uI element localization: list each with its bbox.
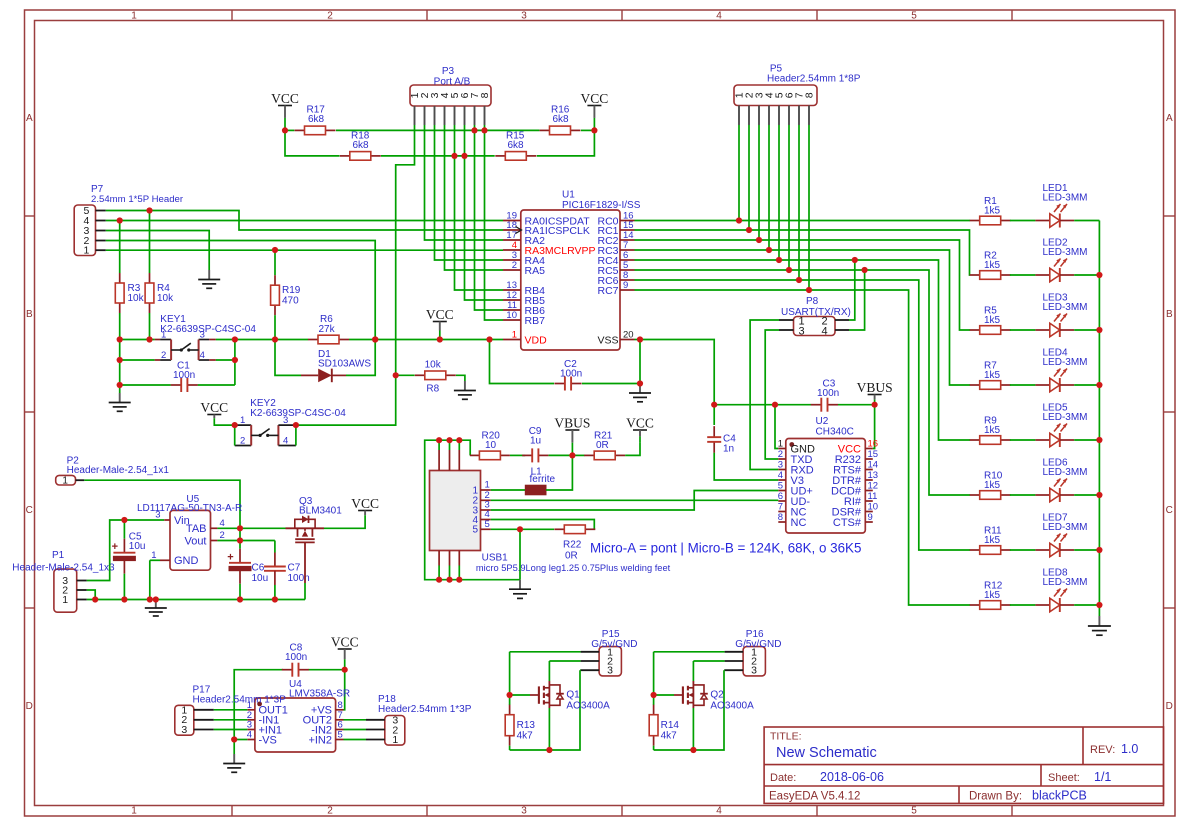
wire D1 right to VDD [346, 340, 375, 376]
svg-text:8: 8 [778, 512, 783, 523]
wire P7.2 to VDD line [106, 241, 375, 340]
svg-text:4k7: 4k7 [517, 731, 534, 742]
node bus/LED4 [1096, 382, 1102, 388]
svg-text:D: D [26, 701, 33, 712]
node bus/LED6 [1096, 492, 1102, 498]
connector P3 [409, 66, 491, 106]
wire R16-VCC [581, 129, 594, 131]
wire P5.7 to RC6 [798, 125, 800, 280]
wire P15.2 to drain [549, 660, 580, 662]
svg-text:4: 4 [778, 470, 783, 481]
svg-text:6k8: 6k8 [508, 140, 525, 151]
wire P1.2 to gnd rail [87, 590, 95, 600]
node USB shell top [446, 437, 452, 443]
wire USB pin5 [491, 528, 554, 530]
svg-text:VCC: VCC [581, 91, 609, 106]
wire R14 to rail [653, 746, 655, 750]
ic U2 CH340C [778, 416, 878, 533]
wire R17 line [285, 129, 294, 131]
ground (P1 rail) [145, 600, 167, 617]
svg-text:1: 1 [131, 10, 137, 21]
wire P3.1 to KEY2/R8 net (MCLR) [296, 125, 415, 425]
capacitor C5 [112, 520, 146, 600]
wire Q2 source to rail [692, 708, 694, 750]
svg-text:100n: 100n [285, 652, 307, 663]
wire P3.5 to RB4 [455, 125, 504, 290]
node C8/VCC [342, 667, 348, 673]
wire R10 to LED6 [1010, 494, 1036, 496]
wire R20-C9 [510, 454, 525, 456]
svg-text:1u: 1u [530, 436, 541, 447]
svg-text:1: 1 [151, 550, 156, 561]
wire KEY1 right bus [234, 340, 236, 386]
svg-text:2.54mm 1*5P Header: 2.54mm 1*5P Header [91, 194, 184, 205]
node C7/rail [272, 596, 278, 602]
wire C1 line left [120, 384, 171, 386]
svg-text:10k: 10k [128, 293, 145, 304]
wire P3.6 to RB5 [465, 125, 504, 300]
svg-text:6k8: 6k8 [553, 114, 570, 125]
node KEY1.1/R4 [146, 336, 152, 342]
svg-text:3: 3 [521, 10, 527, 21]
resistor R11 [970, 526, 1011, 555]
resistor R1 [970, 196, 1011, 225]
connector P17 [175, 685, 286, 737]
svg-text:3: 3 [798, 326, 804, 338]
svg-text:1k5: 1k5 [984, 535, 1001, 546]
power VBUS (USB) [554, 416, 590, 456]
svg-text:LMV358A-SR: LMV358A-SR [289, 689, 350, 700]
svg-text:1: 1 [392, 734, 398, 746]
resistor R6 [308, 314, 349, 344]
svg-text:10k: 10k [425, 359, 442, 370]
svg-text:1/1: 1/1 [1094, 770, 1111, 784]
connector P1 [12, 550, 115, 612]
svg-text:R19: R19 [282, 285, 301, 296]
node bus/LED5 [1096, 437, 1102, 443]
wire LED7 to bus [1074, 549, 1099, 551]
wire RC0 to R1 [635, 220, 971, 222]
svg-text:9: 9 [868, 512, 873, 523]
svg-text:3: 3 [181, 724, 187, 736]
led LED7 [1035, 513, 1087, 558]
svg-text:1k5: 1k5 [984, 425, 1001, 436]
svg-text:LED-3MM: LED-3MM [1043, 193, 1088, 204]
svg-text:Date:: Date: [770, 772, 796, 784]
wire R1 to LED1 [1010, 220, 1036, 222]
svg-text:-VS: -VS [259, 734, 277, 746]
capacitor C9 [522, 426, 548, 462]
P3 pin 3 stub [434, 106, 436, 125]
node P5.1/RC0 [736, 217, 742, 223]
connector USB1 [430, 440, 671, 580]
svg-text:3: 3 [607, 665, 613, 677]
P7 pin 1 stub [96, 249, 106, 251]
node C1 left [117, 382, 123, 388]
wire Q3 gate to rail [304, 583, 306, 600]
svg-text:0R: 0R [565, 551, 578, 562]
wire KEY1 pin4 [216, 359, 235, 361]
svg-text:+IN2: +IN2 [308, 734, 332, 746]
wire R5 to LED3 [1010, 329, 1036, 331]
wire RC2 to R5 [635, 240, 971, 330]
svg-text:C: C [1166, 505, 1173, 516]
svg-text:6k8: 6k8 [308, 114, 325, 125]
resistor R15 [495, 131, 536, 161]
svg-text:Port A/B: Port A/B [434, 77, 471, 88]
svg-text:100n: 100n [817, 388, 839, 399]
wire R3 bottom to KEY1 [119, 313, 121, 340]
svg-text:1k5: 1k5 [984, 260, 1001, 271]
wire VSS to gnd and C4 [635, 339, 641, 341]
svg-text:P8: P8 [806, 296, 819, 307]
svg-text:5: 5 [778, 481, 783, 492]
node P5.4/RC3 [766, 247, 772, 253]
wire LED2 to bus [1074, 274, 1099, 276]
wire RC3 to R7 [635, 250, 971, 385]
wire KEY1 left bus to C1/gnd [119, 340, 121, 394]
resistor R18 [340, 131, 381, 161]
P5 pin 2 stub [748, 106, 750, 126]
connector P15 [581, 629, 638, 677]
svg-text:LED-3MM: LED-3MM [1043, 302, 1088, 313]
wire P7.5 to RA1 [106, 211, 503, 231]
wire R18-R15 line [381, 155, 495, 157]
svg-text:4: 4 [716, 806, 722, 817]
node P5.6/RC5 [786, 267, 792, 273]
node RA3/R19 [272, 247, 278, 253]
wire RC5 to R10 [635, 270, 971, 495]
svg-text:+: + [227, 551, 233, 563]
svg-text:LED-3MM: LED-3MM [1043, 577, 1088, 588]
transistor Q2 AO3400A [654, 681, 754, 712]
wire -VS to gnd [234, 739, 247, 741]
wire R15 to VCC riser [537, 130, 595, 156]
svg-text:B: B [1166, 309, 1173, 320]
svg-text:GND: GND [174, 555, 199, 567]
svg-text:10: 10 [868, 502, 879, 513]
wire L1 to VBUS [546, 455, 572, 490]
wire RC7 to R12 [635, 290, 971, 605]
wire U2 VCC pin to VBUS [873, 405, 875, 449]
connector P7 [74, 184, 184, 257]
node VCC/R16 [591, 127, 597, 133]
svg-text:1: 1 [131, 806, 137, 817]
connector P16 [725, 629, 782, 677]
svg-text:AO3400A: AO3400A [710, 701, 754, 712]
node GND/C4 [711, 402, 717, 408]
node P5.8/RC7 [806, 287, 812, 293]
connector P5 [733, 64, 860, 106]
svg-text:4: 4 [200, 350, 205, 361]
wire R9 to LED5 [1010, 439, 1036, 441]
svg-text:1: 1 [62, 476, 68, 487]
led LED2 [1035, 238, 1087, 283]
connector P2 [56, 456, 170, 487]
svg-text:1k5: 1k5 [984, 480, 1001, 491]
svg-text:13: 13 [868, 470, 879, 481]
wire KEY2 pins3-4 [295, 425, 297, 445]
svg-text:Micro-A = pont | Micro-B = 124: Micro-A = pont | Micro-B = 124K, 68K, o … [590, 541, 861, 556]
wire P8.3 to U2 TXD [765, 330, 779, 459]
svg-text:VBUS: VBUS [857, 380, 893, 395]
svg-text:Header-Male-2.54_1x3: Header-Male-2.54_1x3 [12, 563, 115, 574]
node C5/rail [121, 596, 127, 602]
wire P5.4 to RC3 [768, 125, 770, 250]
resistor R17 [295, 105, 336, 135]
svg-text:4: 4 [716, 10, 722, 21]
wire RC6 to R11 [635, 280, 971, 550]
led LED6 [1035, 458, 1087, 503]
svg-text:1: 1 [62, 594, 68, 606]
resistor R13 [505, 695, 535, 746]
node Q2 gate [651, 692, 657, 698]
svg-text:NC: NC [791, 517, 807, 529]
inductor L1 ferrite [491, 467, 556, 495]
svg-text:4: 4 [247, 730, 252, 741]
resistor R14 [649, 695, 679, 746]
svg-text:VCC: VCC [426, 307, 454, 322]
P5 pin 6 stub [788, 106, 790, 126]
wire P1.1 gnd rail [87, 599, 305, 601]
ic U4 LMV358A-SR [247, 679, 350, 752]
svg-text:3: 3 [751, 665, 757, 677]
node USB shell top [436, 437, 442, 443]
wires U4 to P18 [344, 719, 367, 721]
wire C2 left riser [490, 340, 555, 384]
svg-text:1k5: 1k5 [984, 370, 1001, 381]
wire P5.2 to RC1 [748, 125, 750, 230]
svg-text:14: 14 [868, 460, 879, 471]
svg-text:10u: 10u [252, 573, 269, 584]
power VCC (KEY2) [200, 400, 228, 422]
svg-text:Drawn By:: Drawn By: [969, 791, 1022, 803]
svg-text:VCC: VCC [351, 496, 379, 511]
node Q2 source/rail [690, 747, 696, 753]
svg-text:1: 1 [778, 439, 783, 450]
led LED1 [1035, 183, 1087, 228]
svg-text:RC7: RC7 [597, 285, 618, 297]
wire P7.1 to RA3 [106, 249, 503, 251]
svg-text:5: 5 [485, 519, 490, 530]
svg-text:3: 3 [200, 330, 205, 341]
svg-text:ferrite: ferrite [530, 474, 556, 485]
wire VCC to KEY2 [214, 422, 234, 425]
svg-text:0R: 0R [596, 440, 609, 451]
svg-text:Sheet:: Sheet: [1048, 772, 1080, 784]
svg-text:LED-3MM: LED-3MM [1043, 247, 1088, 258]
wire VBUS-R21 [572, 454, 584, 456]
wire KEY2 pins1-2 [234, 425, 236, 445]
wire P16.2 to drain [693, 660, 724, 662]
svg-text:3: 3 [521, 806, 527, 817]
node P8.4/RC5 [862, 267, 868, 273]
wire LED cathode bus [1098, 221, 1100, 617]
svg-text:K2-6639SP-C4SC-04: K2-6639SP-C4SC-04 [250, 408, 346, 419]
node VCC/VDD [437, 336, 443, 342]
ic U1 PIC16F1829-I/SS [503, 190, 641, 351]
P3 pin 4 stub [444, 106, 446, 125]
wire RC1 to R2 [635, 230, 971, 275]
wire RC4 to R9 [635, 260, 971, 440]
wire P1.3 to Vin [87, 520, 164, 581]
node P7.5/R4 [146, 207, 152, 213]
node USB shell bottom [456, 577, 462, 583]
svg-text:TITLE:: TITLE: [770, 731, 802, 743]
power VCC (Q3) [351, 496, 379, 520]
P7 pin 3 stub [96, 230, 106, 232]
svg-text:1.0: 1.0 [1121, 742, 1138, 756]
wire R21 to VCC [625, 443, 640, 456]
node Q1 source/rail [546, 747, 552, 753]
svg-text:Q2: Q2 [710, 690, 724, 701]
ground (P7 pin3) [198, 270, 220, 288]
svg-text:VBUS: VBUS [554, 416, 590, 431]
wire Q1 source to rail [548, 708, 550, 750]
svg-text:4k7: 4k7 [661, 731, 678, 742]
resistor R7 [970, 361, 1011, 390]
svg-text:5: 5 [911, 806, 917, 817]
P3 pin 5 stub [454, 106, 456, 125]
svg-text:RA5: RA5 [525, 265, 546, 277]
svg-text:5: 5 [911, 10, 917, 21]
wire -VS gnd drop [233, 740, 235, 755]
wire P7.4 to RA0 [106, 220, 503, 222]
node C5/Vin [121, 517, 127, 523]
wire USB shell rails [425, 440, 520, 580]
node Vout/C6 [237, 537, 243, 543]
wire P3.3 to RA4 [435, 125, 504, 260]
svg-text:Header2.54mm 1*8P: Header2.54mm 1*8P [767, 74, 861, 85]
svg-text:100n: 100n [173, 370, 195, 381]
wire C8 left riser [234, 670, 283, 740]
svg-text:4: 4 [821, 326, 827, 338]
power VCC (VDD pin) [426, 307, 454, 340]
wire LED4 to bus [1074, 384, 1099, 386]
capacitor C1 [171, 361, 198, 393]
connector P18 [366, 694, 472, 746]
svg-text:5: 5 [472, 525, 478, 536]
node USB shell top [456, 437, 462, 443]
P7 pin 2 stub [96, 240, 106, 242]
node C6/rail [237, 596, 243, 602]
node P8.2/RC4 [852, 257, 858, 263]
svg-text:27k: 27k [319, 324, 336, 335]
resistor R4 [145, 273, 174, 313]
power VCC (R21) [626, 416, 654, 443]
node KEY1.3 [232, 336, 238, 342]
node gnd-sym/rail [153, 596, 159, 602]
wire R7 to LED4 [1010, 384, 1036, 386]
svg-text:LED-3MM: LED-3MM [1043, 467, 1088, 478]
wire U2 GND pin [775, 405, 778, 449]
wire P8.4 to RC5 [849, 270, 865, 330]
svg-text:15: 15 [868, 449, 879, 460]
P3 pin 6 stub [464, 106, 466, 125]
svg-text:4: 4 [220, 518, 225, 529]
svg-text:Vout: Vout [184, 535, 206, 547]
svg-text:TAB: TAB [186, 523, 207, 535]
svg-text:Header-Male-2.54_1x1: Header-Male-2.54_1x1 [67, 465, 170, 476]
node USB shell bottom [446, 577, 452, 583]
svg-text:2: 2 [778, 449, 783, 460]
P8 pin stubs [779, 319, 794, 321]
node U5gnd/rail [147, 596, 153, 602]
wire R17-R16 line [336, 129, 539, 131]
svg-text:12: 12 [868, 481, 879, 492]
wire U5 GND to rail [150, 559, 160, 561]
svg-text:VCC: VCC [200, 400, 228, 415]
P5 pin 1 stub [738, 106, 740, 126]
svg-text:10: 10 [485, 440, 497, 451]
diode D1 [301, 349, 371, 382]
svg-text:3: 3 [778, 460, 783, 471]
led LED3 [1035, 293, 1087, 338]
svg-text:blackPCB: blackPCB [1032, 789, 1087, 803]
svg-text:2: 2 [327, 10, 333, 21]
svg-text:VCC: VCC [331, 635, 359, 650]
wire VSS down to C2 [639, 340, 641, 384]
P3 pin 2 stub [424, 106, 426, 125]
power VBUS (U2) [857, 380, 893, 405]
svg-text:6: 6 [778, 491, 783, 502]
svg-text:New Schematic: New Schematic [776, 745, 877, 761]
svg-text:1k5: 1k5 [984, 206, 1001, 217]
node Q1 gate [507, 692, 513, 698]
node R15/P3.5 [451, 153, 457, 159]
node C2/VDD [486, 336, 492, 342]
resistor R2 [970, 251, 1011, 280]
wire P3.8 to RB7 [485, 125, 504, 320]
transistor Q1 AO3400A [510, 681, 610, 712]
resistor R10 [970, 471, 1011, 500]
svg-text:R14: R14 [661, 720, 680, 731]
wire R3 top [119, 221, 121, 274]
wire R11 to LED7 [1010, 549, 1036, 551]
wire P5.3 to RC2 [758, 125, 760, 240]
svg-text:LED-3MM: LED-3MM [1043, 412, 1088, 423]
svg-text:2: 2 [161, 350, 166, 361]
capacitor C2 [554, 359, 582, 391]
led LED4 [1035, 348, 1087, 393]
svg-text:1: 1 [240, 415, 245, 426]
wire VCC to lower pull-up line [285, 130, 340, 156]
svg-text:8: 8 [479, 92, 491, 98]
title block [764, 727, 1163, 803]
svg-text:3: 3 [283, 415, 288, 426]
node KEY1.2 [117, 357, 123, 363]
resistor R3 [115, 273, 144, 313]
svg-text:C: C [26, 505, 33, 516]
wire P5.1 to RC0 [738, 125, 740, 221]
capacitor C8 [282, 643, 309, 677]
svg-text:VCC: VCC [626, 416, 654, 431]
capacitor C6 [227, 541, 268, 600]
node P1.2/rail [92, 596, 98, 602]
ground (LED bus) [1088, 616, 1111, 635]
wire KEY1 pin1 net [120, 339, 155, 341]
wire P8.2 to RC4 [849, 260, 855, 320]
svg-text:2: 2 [220, 530, 225, 541]
wire VDD row KEY1-R6 [235, 339, 308, 341]
wire VCC to +VS [344, 670, 345, 710]
resistor R9 [970, 416, 1011, 445]
P5 pin 4 stub [768, 106, 770, 126]
node P5.5/RC4 [776, 257, 782, 263]
node R19/D1 left [272, 336, 278, 342]
resistor R20 [470, 431, 510, 460]
svg-text:1: 1 [161, 330, 166, 341]
